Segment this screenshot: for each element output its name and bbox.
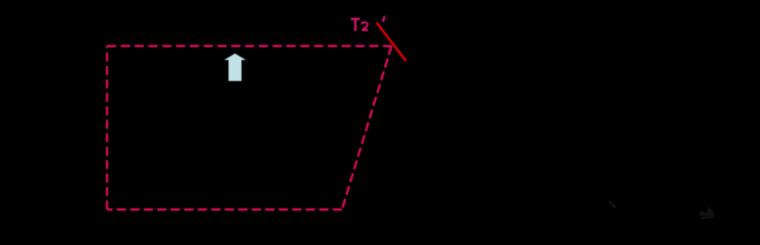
dashed region right edge (slanted)	[342, 46, 392, 210]
dashed region left edge	[106, 46, 108, 210]
red annotation line	[377, 23, 407, 62]
faint dark diagonal mark	[609, 201, 616, 208]
label T2 : letter T drawn as rects	[351, 18, 360, 31]
tick mark (prime) above red line	[383, 17, 384, 21]
label T2 : subscript digit 2 drawn as path	[362, 22, 368, 30]
faint dark blob cluster	[698, 206, 716, 219]
blue block arrow pointing up	[224, 54, 246, 82]
dashed region bottom edge	[107, 208, 342, 210]
dashed region top edge	[107, 45, 392, 47]
